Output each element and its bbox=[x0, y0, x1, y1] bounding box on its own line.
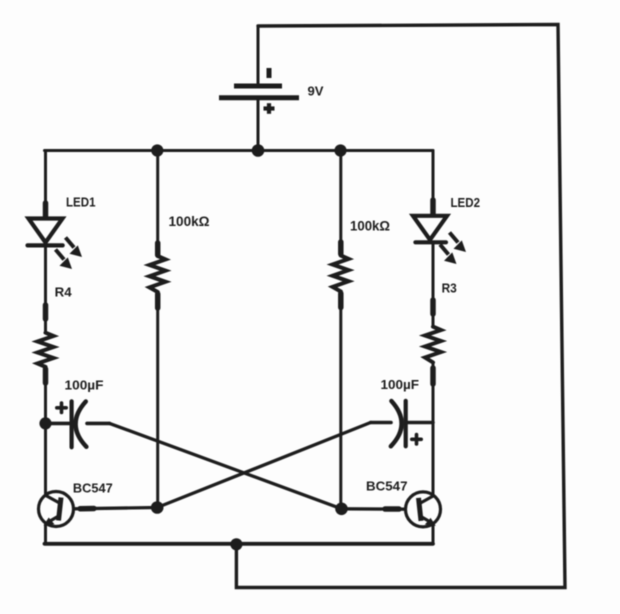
svg-text:100kΩ: 100kΩ bbox=[350, 219, 390, 234]
svg-text:100kΩ: 100kΩ bbox=[169, 214, 210, 229]
svg-text:LED2: LED2 bbox=[451, 195, 481, 210]
svg-text:R4: R4 bbox=[55, 284, 73, 299]
svg-text:R3: R3 bbox=[442, 280, 457, 295]
svg-text:BC547: BC547 bbox=[73, 480, 113, 495]
svg-text:9V: 9V bbox=[308, 84, 324, 99]
svg-text:100µF: 100µF bbox=[65, 377, 104, 392]
svg-text:BC547: BC547 bbox=[366, 479, 408, 494]
svg-text:LED1: LED1 bbox=[66, 195, 96, 210]
svg-text:100µF: 100µF bbox=[381, 377, 420, 392]
